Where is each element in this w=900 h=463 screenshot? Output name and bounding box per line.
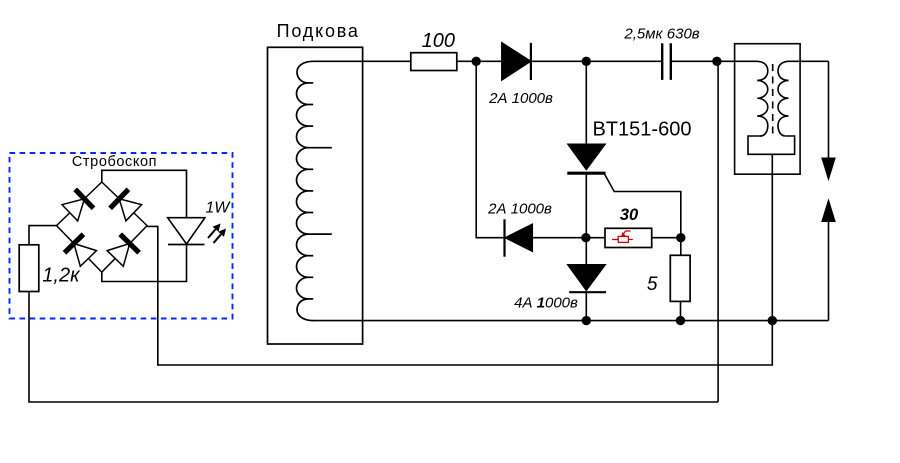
svg-text:2А 1000в: 2А 1000в xyxy=(487,201,552,218)
svg-text:Подкова: Подкова xyxy=(277,21,360,41)
svg-text:100: 100 xyxy=(422,30,455,52)
svg-text:2А 1000в: 2А 1000в xyxy=(488,90,553,107)
svg-text:1,2к: 1,2к xyxy=(42,265,81,287)
svg-text:5: 5 xyxy=(647,274,658,295)
svg-text:30: 30 xyxy=(620,206,639,224)
svg-text:Стробоскоп: Стробоскоп xyxy=(72,154,157,170)
svg-text:BT151-600: BT151-600 xyxy=(593,118,692,140)
svg-text:1W: 1W xyxy=(205,200,231,217)
svg-text:4А 1000в: 4А 1000в xyxy=(514,295,578,312)
svg-text:2,5мк 630в: 2,5мк 630в xyxy=(623,26,699,43)
